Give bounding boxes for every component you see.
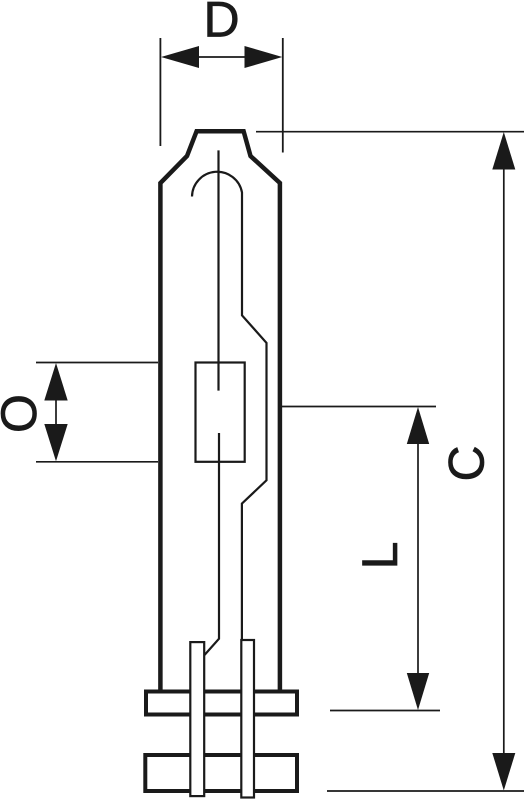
svg-text:C: C [439, 445, 495, 481]
lamp outer bulb outline [160, 131, 280, 692]
arrowhead O down [44, 424, 67, 461]
svg-text:L: L [352, 542, 408, 570]
arrowhead L bottom [407, 673, 429, 710]
base pin left [190, 642, 204, 796]
dimension line L [417, 443, 419, 674]
top reference line (lamp top, start of C) [256, 131, 524, 133]
extension line right of D [282, 38, 284, 153]
dimension shaft D [197, 56, 246, 58]
svg-text:D: D [203, 0, 239, 47]
base pin right [241, 640, 254, 798]
O top reference line [36, 362, 158, 364]
arrowhead O up [44, 363, 67, 401]
dimension line O [55, 399, 57, 426]
frame wire dome over arc tube and return conductor [192, 172, 267, 641]
lower electrode wire [205, 433, 220, 655]
arrowhead D right [245, 46, 283, 68]
arrowhead C top [492, 132, 515, 170]
bottom reference line (lamp base, end of C) [327, 790, 524, 792]
base plate lower [145, 755, 297, 791]
L top reference line [282, 406, 436, 408]
arrowhead L top [407, 407, 429, 444]
arrowhead C bottom [492, 753, 515, 791]
base plate upper [146, 692, 297, 715]
dimension line C [503, 168, 505, 754]
arc tube (discharge tube) [196, 363, 245, 462]
L bottom reference line [330, 710, 440, 712]
upper electrode support wire [217, 150, 219, 390]
arrowhead D left [161, 46, 199, 68]
svg-text:O: O [0, 394, 47, 433]
extension line left of D [159, 38, 161, 146]
O bottom reference line [36, 461, 158, 463]
